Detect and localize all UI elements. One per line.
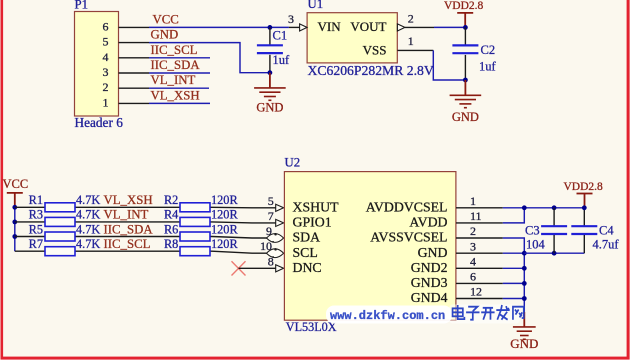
resistor R7	[45, 247, 75, 256]
svg-text:VCC: VCC	[3, 177, 29, 191]
svg-text:1: 1	[103, 95, 109, 109]
svg-text:AVSSVCSEL: AVSSVCSEL	[370, 230, 447, 245]
svg-text:1uf: 1uf	[479, 60, 497, 74]
svg-text:IIC_SDA: IIC_SDA	[151, 58, 201, 72]
junction VDD/C2	[463, 25, 468, 30]
watermark halo	[326, 306, 452, 324]
svg-text:VL_INT: VL_INT	[104, 208, 149, 222]
wire GND row 6	[503, 298, 525, 300]
power VDD2.8 bar bottom	[577, 193, 593, 195]
svg-text:C4: C4	[599, 224, 614, 238]
power VCC bar	[7, 192, 23, 194]
svg-text:VDD2.8: VDD2.8	[564, 181, 604, 193]
U2 pin 11 stub	[456, 222, 503, 224]
svg-text:4.7K: 4.7K	[76, 193, 100, 207]
resistor R4	[180, 217, 210, 226]
svg-text:VSS: VSS	[363, 43, 387, 58]
junction VCC bus row 1	[12, 205, 17, 210]
svg-text:5: 5	[268, 194, 274, 208]
svg-text:U2: U2	[285, 156, 301, 170]
svg-text:4.7K: 4.7K	[76, 222, 100, 236]
svg-text:120R: 120R	[211, 237, 238, 251]
junction VCC bus row 2	[12, 220, 17, 225]
wire pin 11 up	[503, 208, 525, 223]
U1 pin 3 stub	[289, 26, 300, 28]
svg-text:GND4: GND4	[411, 290, 448, 305]
svg-text:4.7uf: 4.7uf	[593, 238, 620, 252]
svg-text:R3: R3	[29, 208, 43, 222]
U2 pin 8 arrow	[276, 265, 284, 272]
svg-text:VL_XSH: VL_XSH	[151, 88, 200, 102]
U2 pin 10 i/o arrow	[267, 248, 284, 258]
U2 pin 9 i/o arrow	[267, 233, 284, 243]
wire GND net top	[149, 43, 270, 73]
op-amp U1 regulator	[307, 13, 397, 63]
junction C3 top	[552, 205, 557, 210]
svg-text:GND: GND	[452, 110, 479, 124]
junction GND bus row 4	[522, 266, 527, 271]
wire VCC bus	[14, 207, 16, 251]
C4 top lead	[583, 208, 585, 226]
svg-text:VOUT: VOUT	[350, 19, 386, 34]
capacitor C3	[541, 226, 567, 234]
junction C3 bottom	[552, 251, 557, 256]
svg-text:R7: R7	[29, 237, 43, 251]
svg-text:1: 1	[408, 34, 414, 48]
junction GND bus row 3	[522, 251, 527, 256]
wire IIC_SCL	[149, 57, 210, 59]
svg-text:IIC_SCL: IIC_SCL	[104, 237, 151, 251]
ground symbol top-left	[254, 88, 286, 100]
P1 pin stub row 3	[119, 57, 150, 59]
svg-text:120R: 120R	[211, 208, 238, 222]
wire VSS to GND	[433, 50, 465, 80]
resistor R2	[180, 203, 210, 212]
U1 pin 1 stub	[397, 49, 433, 51]
svg-text:VL_INT: VL_INT	[151, 73, 196, 87]
svg-text:R2: R2	[164, 193, 178, 207]
svg-text:R8: R8	[164, 237, 178, 251]
ground symbol top-right	[450, 95, 482, 107]
capacitor C2	[452, 45, 478, 53]
C1 top lead	[269, 27, 271, 44]
svg-text:4.7K: 4.7K	[76, 237, 100, 251]
svg-text:GND3: GND3	[411, 275, 448, 290]
no connect X pin 8	[232, 261, 246, 275]
svg-text:11: 11	[470, 209, 482, 223]
capacitor C1	[257, 45, 283, 53]
junction VCC bus row 3	[12, 234, 17, 239]
watermark chinese 电子开发网	[453, 305, 465, 319]
svg-text:C1: C1	[273, 29, 288, 43]
svg-text:120R: 120R	[211, 193, 238, 207]
wire GND row 3	[503, 252, 525, 254]
power VDD2.8 bar	[457, 12, 473, 14]
svg-text:GND: GND	[510, 336, 538, 351]
wire VL_XSH	[149, 102, 210, 104]
svg-text:10: 10	[260, 239, 272, 253]
GND stem	[269, 73, 271, 88]
svg-text:3: 3	[470, 239, 476, 253]
svg-text:8: 8	[268, 254, 274, 268]
svg-text:P1: P1	[75, 0, 89, 12]
svg-text:GND: GND	[256, 101, 283, 115]
C2 top lead	[464, 27, 466, 45]
wire pin2 + GND bus	[503, 238, 525, 312]
C3 bottom lead	[553, 235, 555, 253]
C4 bottom lead	[583, 235, 585, 253]
svg-text:DNC: DNC	[293, 260, 322, 275]
svg-text:GND: GND	[418, 245, 448, 260]
U2 pin 6 stub	[456, 282, 503, 284]
junction GND bus row 5	[522, 281, 527, 286]
svg-text:Header 6: Header 6	[75, 115, 124, 130]
svg-text:2: 2	[470, 224, 476, 238]
wire VCC net	[149, 26, 289, 28]
U2 pin 3 stub	[456, 252, 503, 254]
svg-text:IIC_SCL: IIC_SCL	[151, 43, 198, 57]
svg-text:6: 6	[470, 270, 476, 284]
wire pin 8	[239, 267, 276, 269]
U2 pin 2 stub	[456, 237, 503, 239]
svg-text:4: 4	[103, 50, 109, 64]
svg-text:XC6206P282MR 2.8V: XC6206P282MR 2.8V	[308, 63, 434, 78]
wire row VL_INT	[15, 222, 276, 223]
resistor R5	[45, 232, 75, 241]
svg-text:VCC: VCC	[153, 12, 179, 26]
resistor R1	[45, 203, 75, 212]
junction VDD/C4	[582, 205, 587, 210]
wire GND row 4	[503, 267, 525, 269]
U2 pin 12 stub	[456, 298, 503, 300]
P1 pin stub row 4	[119, 72, 150, 74]
C1 bottom lead	[269, 55, 271, 73]
junction GND bus row 6	[522, 296, 527, 301]
svg-text:7: 7	[268, 209, 274, 223]
svg-text:R5: R5	[29, 222, 43, 236]
svg-text:AVDDVCSEL: AVDDVCSEL	[366, 199, 448, 214]
P1 pin stub row 2	[119, 42, 150, 44]
svg-text:R4: R4	[164, 208, 178, 222]
P1 pin stub row 6	[119, 102, 150, 104]
svg-text:GND2: GND2	[411, 260, 448, 275]
C3 top lead	[553, 208, 555, 226]
wire AVDD net	[503, 207, 585, 209]
U1 pin 2 stub	[405, 26, 434, 28]
svg-text:4: 4	[470, 255, 476, 269]
IC U2	[284, 172, 456, 321]
U2 pin 7 arrow	[276, 219, 284, 226]
U2 pin 5 arrow	[276, 204, 284, 211]
U2 pin 1 stub	[456, 207, 503, 209]
resistor R3	[45, 217, 75, 226]
svg-text:3: 3	[103, 65, 109, 79]
svg-text:3: 3	[288, 12, 294, 26]
U1 pin 2 arrow	[397, 24, 405, 31]
P1 pin stub row 1	[119, 26, 150, 28]
svg-text:1: 1	[470, 194, 476, 208]
svg-text:6: 6	[103, 19, 109, 33]
svg-text:9: 9	[266, 224, 272, 238]
svg-text:U1: U1	[308, 0, 324, 11]
svg-text:AVDD: AVDD	[409, 215, 447, 230]
capacitor C4	[571, 226, 597, 234]
svg-text:4.7K: 4.7K	[76, 208, 100, 222]
svg-text:1uf: 1uf	[273, 53, 291, 67]
svg-text:XSHUT: XSHUT	[293, 199, 340, 214]
wire VOUT to VDD	[434, 26, 465, 28]
wire caps bottom	[524, 252, 584, 254]
GND stem bottom	[523, 312, 525, 327]
svg-text:R1: R1	[29, 193, 43, 207]
wire IIC_SDA	[149, 72, 210, 74]
wire row IIC_SDA	[15, 237, 276, 239]
resistor R8	[180, 247, 210, 256]
svg-text:GPIO1: GPIO1	[293, 215, 332, 230]
connector P1	[75, 12, 119, 117]
svg-text:12: 12	[470, 285, 482, 299]
svg-text:R6: R6	[164, 222, 178, 236]
VCC stem	[14, 193, 16, 207]
svg-text:VDD2.8: VDD2.8	[444, 0, 484, 12]
svg-text:VL_XSH: VL_XSH	[104, 193, 153, 207]
svg-text:2: 2	[408, 12, 414, 26]
U2 pin 4 stub	[456, 267, 503, 269]
junction pin11/AVDD	[522, 205, 527, 210]
svg-text:5: 5	[103, 35, 109, 49]
svg-text:GND: GND	[151, 28, 179, 42]
svg-text:SDA: SDA	[293, 230, 321, 245]
wire GND row 5	[503, 282, 525, 284]
VDD2.8 stem bottom	[584, 194, 586, 208]
GND stem right	[464, 80, 466, 95]
junction VCC/C1	[268, 25, 273, 30]
svg-text:2: 2	[103, 80, 109, 94]
U1 pin 3 arrow	[300, 24, 307, 31]
svg-text:SCL: SCL	[293, 245, 318, 260]
svg-text:C2: C2	[481, 43, 496, 57]
ground symbol bottom	[513, 327, 536, 339]
svg-text:C3: C3	[525, 224, 540, 238]
svg-text:120R: 120R	[211, 222, 238, 236]
P1 pin stub row 5	[119, 87, 150, 89]
svg-text:IIC_SDA: IIC_SDA	[104, 222, 154, 236]
junction C2/GND	[463, 78, 468, 83]
resistor R6	[180, 232, 210, 241]
svg-text:VIN: VIN	[318, 19, 342, 34]
VDD2.8 stem	[464, 13, 466, 28]
svg-text:www.dzkfw.com.cn: www.dzkfw.com.cn	[330, 309, 445, 323]
svg-text:104: 104	[526, 238, 546, 252]
wire VL_INT	[149, 87, 209, 89]
wire row VL_XSH	[15, 206, 276, 209]
junction C1/GND	[268, 70, 273, 75]
C2 bottom lead	[464, 55, 466, 80]
wire row IIC_SCL	[15, 251, 276, 253]
